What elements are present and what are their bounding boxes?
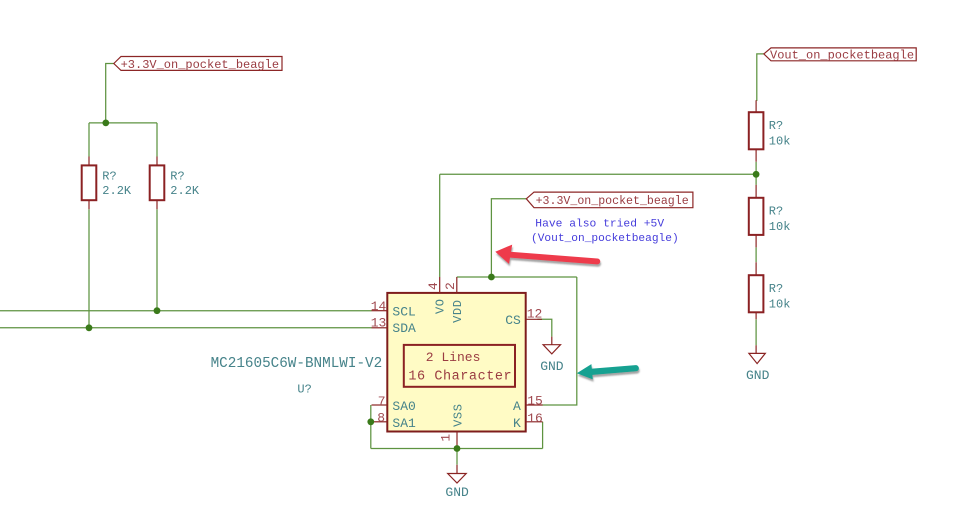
resistor R? 2.2K (right) <box>150 157 200 210</box>
svg-text:2.2K: 2.2K <box>170 184 200 198</box>
junction VSS <box>454 445 461 452</box>
wire right 2.2K resistor bottom to SCL <box>156 209 158 310</box>
junction R2/SCL <box>154 307 161 314</box>
pin 2 VDD <box>443 277 465 323</box>
wire resistor top bus <box>89 122 157 124</box>
svg-text:+3.3V_on_pocket_beagle: +3.3V_on_pocket_beagle <box>536 195 689 208</box>
svg-text:16 Character: 16 Character <box>408 369 512 384</box>
wire VO to divider <box>440 173 756 175</box>
wire divider bottom to gnd <box>755 319 757 345</box>
svg-text:SCL: SCL <box>392 305 415 320</box>
svg-text:+3.3V_on_pocket_beagle: +3.3V_on_pocket_beagle <box>121 58 279 72</box>
svg-text:R?: R? <box>769 205 783 219</box>
svg-text:10k: 10k <box>769 220 791 234</box>
wire CS to gnd <box>537 319 552 336</box>
pin 1 VSS <box>438 403 465 448</box>
annotation red arrow <box>495 245 597 264</box>
resistor R? 10k (middle of divider) <box>749 185 791 248</box>
resistor R? 10k (bottom of divider) <box>749 262 791 319</box>
svg-text:GND: GND <box>746 368 770 383</box>
global label +3.3V_on_pocket_beagle (center) <box>526 192 693 208</box>
wire label1 lead to junction <box>106 64 114 123</box>
svg-text:15: 15 <box>527 394 543 409</box>
wire SCL bus <box>0 310 372 312</box>
wire A to VDD riser <box>543 277 577 405</box>
pin 13 SDA <box>371 315 416 336</box>
svg-text:Have also tried +5V: Have also tried +5V <box>535 218 664 230</box>
svg-text:1: 1 <box>438 434 453 442</box>
wire left 2.2K resistor bottom to SDA <box>88 209 90 327</box>
pin 4 VO <box>426 277 447 314</box>
wire left 2.2K resistor top drop <box>88 123 90 157</box>
svg-text:MC21605C6W-BNMLWI-V2: MC21605C6W-BNMLWI-V2 <box>211 356 383 372</box>
svg-text:8: 8 <box>377 410 385 425</box>
wire SA0/SA1 to bottom <box>370 405 372 449</box>
svg-text:SA0: SA0 <box>392 399 415 414</box>
wire VDD horizontal <box>457 276 577 278</box>
annotation blue text <box>531 218 679 245</box>
svg-text:2.2K: 2.2K <box>102 184 132 198</box>
ground GND (VSS) <box>445 465 469 500</box>
wire VSS to gnd <box>456 449 458 465</box>
svg-text:R?: R? <box>769 282 783 296</box>
pin 15 A <box>513 394 543 415</box>
svg-text:VSS: VSS <box>451 403 465 426</box>
svg-text:2 Lines: 2 Lines <box>426 350 481 365</box>
wire Vout label lead <box>757 54 764 101</box>
svg-text:16: 16 <box>527 411 543 426</box>
junction at 3.3V split <box>102 120 109 127</box>
ground GND (divider) <box>746 345 770 383</box>
svg-text:R?: R? <box>102 170 116 184</box>
svg-text:(Vout_on_pocketbeagle): (Vout_on_pocketbeagle) <box>531 233 679 245</box>
resistor R? 2.2K (left) <box>82 157 132 210</box>
global label Vout_on_pocketbeagle <box>764 48 916 63</box>
svg-text:2: 2 <box>443 282 458 290</box>
svg-text:10k: 10k <box>769 297 791 311</box>
svg-text:13: 13 <box>371 315 387 330</box>
junction VDD <box>488 274 495 281</box>
svg-text:A: A <box>513 399 521 414</box>
wire SDA bus <box>0 327 372 329</box>
svg-text:VO: VO <box>433 298 447 314</box>
wire VO riser <box>439 174 441 277</box>
wire junction to label2 <box>491 199 526 277</box>
svg-text:SA1: SA1 <box>392 416 416 431</box>
svg-text:4: 4 <box>426 282 441 290</box>
junction SA1 <box>367 418 374 425</box>
svg-text:K: K <box>513 416 521 431</box>
ground GND (CS) <box>540 337 564 374</box>
svg-text:VDD: VDD <box>451 299 465 322</box>
svg-text:14: 14 <box>371 299 387 314</box>
wire divider R-R link (upper) <box>755 162 757 185</box>
svg-text:10k: 10k <box>769 134 791 148</box>
svg-text:CS: CS <box>505 313 521 328</box>
svg-text:12: 12 <box>527 306 543 321</box>
pin 8 SA1 <box>372 410 417 430</box>
svg-text:GND: GND <box>445 485 469 500</box>
resistor R? 10k (top of divider) <box>749 100 791 162</box>
wire bottom gnd bus <box>371 448 543 450</box>
annotation teal arrow <box>577 364 636 379</box>
IC U? MC21605C6W-BNMLWI-V2 body <box>387 293 525 432</box>
pin 14 SCL <box>371 299 416 319</box>
junction divider tap <box>753 171 760 178</box>
svg-text:R?: R? <box>769 119 783 133</box>
svg-text:GND: GND <box>540 359 564 374</box>
svg-text:R?: R? <box>170 170 184 184</box>
svg-text:7: 7 <box>378 394 386 409</box>
pin 12 CS <box>505 306 542 328</box>
pin 7 SA0 <box>372 394 416 414</box>
pin 16 K <box>513 411 543 431</box>
wire K drop <box>542 422 544 449</box>
svg-text:U?: U? <box>297 383 311 397</box>
junction R1/SDA <box>86 324 93 331</box>
wire right 2.2K resistor top drop <box>156 123 158 157</box>
svg-text:SDA: SDA <box>392 321 416 336</box>
svg-text:Vout_on_pocketbeagle: Vout_on_pocketbeagle <box>770 48 914 62</box>
wire divider R-R link (lower) <box>755 247 757 262</box>
IC inner display box <box>404 345 515 387</box>
global label +3.3V_on_pocket_beagle (top left) <box>114 57 282 73</box>
